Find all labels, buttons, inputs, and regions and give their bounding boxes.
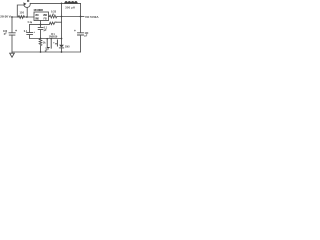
svg-text:+: +	[15, 29, 17, 33]
svg-text:µF: µF	[4, 33, 7, 36]
svg-text:+: +	[34, 31, 36, 34]
svg-text:+: +	[53, 40, 55, 44]
svg-text:µF: µF	[85, 36, 88, 38]
svg-text:150: 150	[20, 11, 25, 14]
svg-text:MC34063: MC34063	[34, 8, 44, 12]
svg-text:28-36 V: 28-36 V	[0, 15, 10, 19]
svg-text:1N5819: 1N5819	[49, 36, 58, 39]
svg-text:1N5: 1N5	[65, 45, 70, 48]
svg-text:VO 5V/2A: VO 5V/2A	[85, 15, 99, 19]
svg-text:GND: GND	[35, 17, 39, 20]
svg-text:300 µH: 300 µH	[65, 7, 75, 10]
svg-text:FB: FB	[44, 17, 47, 20]
svg-text:0.1: 0.1	[24, 30, 28, 33]
svg-text:+: +	[74, 29, 76, 33]
svg-text:µF: µF	[44, 29, 47, 32]
svg-text:1k: 1k	[43, 42, 46, 45]
svg-text:0.1µ: 0.1µ	[28, 22, 33, 24]
svg-text:Ω: Ω	[52, 14, 54, 16]
